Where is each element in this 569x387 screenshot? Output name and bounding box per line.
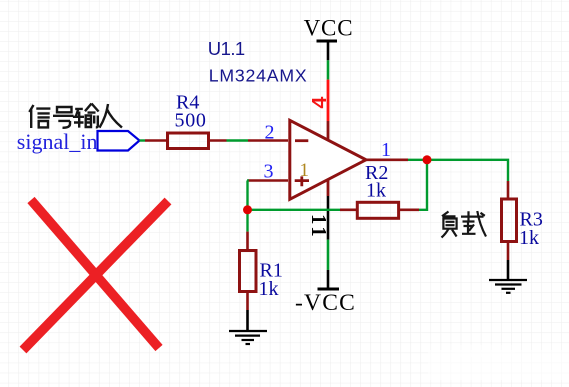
op-amp U1 pin 4	[327, 80, 330, 140]
node B junction dot	[423, 155, 432, 164]
label 信号输入	[29, 104, 122, 129]
label 负载	[442, 211, 487, 238]
wire pin3 down to node A	[247, 181, 249, 210]
power port VCC	[304, 16, 354, 61]
wire port to R4	[140, 139, 146, 141]
svg-text:1k: 1k	[366, 180, 386, 202]
svg-text:2: 2	[265, 122, 275, 144]
resistor R1	[240, 232, 257, 310]
port signal_in	[98, 131, 140, 151]
svg-text:U1.1: U1.1	[208, 38, 245, 59]
svg-text:3: 3	[264, 161, 274, 183]
wire node A to R2	[248, 209, 341, 211]
svg-text:VCC: VCC	[304, 16, 354, 41]
ground under R3	[489, 260, 527, 293]
wire pin11 to -VCC	[327, 240, 330, 270]
svg-text:-VCC: -VCC	[295, 290, 356, 316]
wire node B to R3	[427, 160, 508, 181]
pin number 11	[307, 214, 331, 237]
wire node B down to R2	[419, 160, 427, 210]
annotation red X stroke 1	[31, 200, 159, 348]
resistor R4	[145, 133, 227, 149]
svg-text:LM324AMX: LM324AMX	[209, 66, 308, 86]
svg-text:signal_in: signal_in	[17, 129, 98, 154]
ground under R1	[229, 310, 267, 344]
wire R4 to pin 2	[227, 139, 249, 141]
op-amp U1 pin 11	[327, 179, 330, 240]
wire output to node B	[408, 159, 427, 161]
annotation red X stroke 2	[23, 201, 168, 350]
svg-text:1k: 1k	[519, 227, 539, 249]
svg-text:1: 1	[307, 214, 331, 225]
op-amp U1.1	[290, 120, 366, 199]
wire VCC	[327, 60, 330, 79]
op-amp U1 pin 3	[248, 179, 288, 182]
wire node A down	[246, 210, 248, 232]
svg-text:1: 1	[381, 139, 391, 161]
resistor R3	[502, 181, 517, 260]
svg-text:4: 4	[309, 96, 331, 109]
power port -VCC	[295, 270, 356, 316]
svg-text:1: 1	[307, 226, 331, 237]
svg-text:500: 500	[175, 110, 207, 132]
resistor R2	[340, 202, 419, 218]
svg-text:1: 1	[300, 160, 310, 181]
op-amp U1 pin 1 output	[366, 159, 408, 162]
svg-text:1k: 1k	[259, 278, 279, 300]
op-amp U1 pin 2	[248, 139, 288, 142]
watermark (faint)	[428, 345, 569, 380]
node A junction dot	[243, 205, 252, 214]
